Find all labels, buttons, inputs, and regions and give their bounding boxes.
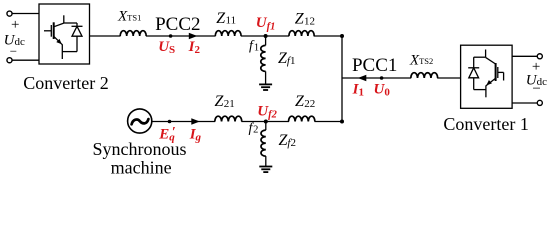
converter 2 DC terminal bottom <box>7 58 12 63</box>
converter 2 DC terminal top <box>7 11 12 16</box>
wire <box>12 59 39 61</box>
converter 1 DC terminal bottom <box>537 100 542 105</box>
node Uf1 dot <box>264 34 268 38</box>
node Uf2 dot <box>264 120 268 124</box>
transistor IGBT of converter 2 <box>44 15 64 59</box>
svg-text:f1: f1 <box>249 39 259 54</box>
svg-text:Z11: Z11 <box>216 10 236 27</box>
ground f2 <box>259 167 272 173</box>
inductor XTS2 <box>411 73 438 78</box>
svg-text:Z22: Z22 <box>295 93 315 110</box>
wire right bus vertical <box>341 36 343 122</box>
transistor IGBT of converter 1 (mirrored) <box>486 50 504 98</box>
arrow I1 <box>358 75 367 81</box>
wire Z22 to right bus <box>315 121 343 123</box>
converter 2 box <box>39 4 90 64</box>
arrow Ig <box>191 118 200 124</box>
converter 1 box <box>461 45 512 108</box>
node bottom right junction <box>340 120 344 124</box>
wire XTS2 to converter 1 <box>437 77 460 79</box>
node top right junction <box>340 34 344 38</box>
converter 1 DC terminal top <box>537 54 542 59</box>
svg-text:XTS1: XTS1 <box>117 9 141 25</box>
svg-text:Uf1: Uf1 <box>256 15 276 32</box>
wire converter2 output to XTS1 <box>90 35 121 37</box>
node Eq dot <box>168 120 172 124</box>
svg-text:f2: f2 <box>249 121 259 136</box>
svg-text:Converter 1: Converter 1 <box>443 114 528 134</box>
synchronous machine circle <box>128 109 152 133</box>
svg-text:I2: I2 <box>188 39 201 56</box>
inductor Z12 <box>289 31 314 36</box>
ground f1 <box>259 84 272 90</box>
arrow I2 <box>189 33 198 39</box>
svg-text:Zf2: Zf2 <box>279 132 296 149</box>
svg-text:Z12: Z12 <box>295 11 315 28</box>
svg-text:I1: I1 <box>352 82 364 99</box>
svg-text:Zf1: Zf1 <box>278 50 295 67</box>
wire Z21 to Z22 <box>241 121 289 123</box>
inductor Z22 <box>289 116 315 121</box>
diode of converter 2 <box>62 23 82 52</box>
diode of converter 1 <box>468 57 486 89</box>
svg-text:XTS2: XTS2 <box>409 52 433 68</box>
svg-text:PCC2: PCC2 <box>155 14 200 35</box>
tilde of synchronous machine <box>132 119 149 124</box>
svg-text:machine: machine <box>111 158 172 178</box>
wire PCC1 horizontal <box>342 77 411 79</box>
inductor Zf1 branch <box>261 36 266 84</box>
svg-text:+: + <box>11 17 19 33</box>
node U0 dot <box>380 76 384 80</box>
svg-text:−: − <box>532 81 540 97</box>
wire <box>12 13 39 15</box>
node PCC2 dot <box>169 34 173 38</box>
svg-text:−: − <box>10 44 17 59</box>
svg-text:Eq′: Eq′ <box>158 125 176 144</box>
svg-text:Ig: Ig <box>189 126 202 143</box>
wire XTS1 to Z11 <box>146 35 216 37</box>
inductor Z21 <box>215 116 242 121</box>
wire Z12 to right bus <box>314 35 342 37</box>
svg-text:Uf2: Uf2 <box>257 104 277 121</box>
svg-text:Converter 2: Converter 2 <box>23 73 108 93</box>
inductor XTS1 <box>120 31 146 36</box>
wire <box>512 55 537 57</box>
svg-text:U0: U0 <box>374 82 391 99</box>
inductor Z11 <box>215 31 241 36</box>
wire Z11 to Z12 <box>241 35 289 37</box>
svg-text:US: US <box>158 39 175 56</box>
inductor Zf2 branch <box>261 122 266 167</box>
wire <box>512 102 537 104</box>
svg-text:PCC1: PCC1 <box>352 55 397 76</box>
svg-text:Z21: Z21 <box>215 93 235 110</box>
wire machine to Z21 <box>152 121 215 123</box>
